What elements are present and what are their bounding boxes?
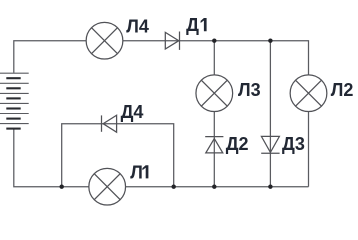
wire D4 branch through diode D4 — [62, 124, 174, 187]
wire bottom-left from battery to lamp L1 — [14, 129, 89, 187]
wire right rail below lamp L2 — [308, 112, 310, 187]
diode D2 — [205, 137, 223, 153]
svg-text:Л: Л — [130, 162, 143, 182]
lamp L2 — [290, 75, 327, 112]
wire from lamp L4 through diode D1 to right corner — [123, 41, 309, 75]
lamp L3 — [196, 75, 233, 112]
diode D4 — [102, 115, 117, 132]
junction node at D1 output top wire — [212, 39, 216, 43]
svg-text:Л4: Л4 — [126, 17, 149, 37]
lamp L4 — [86, 22, 123, 59]
battery GB — [0, 73, 29, 128]
diode D3 — [261, 136, 279, 153]
wire top-left from battery to lamp L4 — [14, 41, 86, 73]
svg-text:Д2: Д2 — [226, 134, 249, 154]
junction node bottom wire at D4 left leg — [60, 185, 64, 189]
svg-text:Л2: Л2 — [331, 80, 354, 100]
wire bottom from lamp L1 to right rail — [126, 186, 309, 188]
label Л1 — [130, 162, 148, 182]
wire from lamp L3 through diode D2 to bottom wire — [213, 112, 215, 187]
junction node top wire at D3 branch — [268, 39, 272, 43]
wire branch from top to lamp L3 — [213, 41, 215, 75]
junction node bottom wire at D3 branch — [268, 185, 272, 189]
junction node bottom wire at D2 branch — [212, 185, 216, 189]
diode D1 — [165, 32, 179, 50]
svg-text:Д4: Д4 — [121, 102, 144, 122]
wire branch D3 from top wire through diode D3 to bottom wire — [269, 41, 271, 187]
lamp L1 — [89, 168, 126, 205]
svg-text:Д3: Д3 — [282, 134, 305, 154]
junction node bottom wire at D4 right leg — [172, 185, 176, 189]
svg-text:Л3: Л3 — [238, 80, 261, 100]
label Д1 — [186, 15, 206, 35]
svg-text:Д: Д — [186, 15, 199, 35]
